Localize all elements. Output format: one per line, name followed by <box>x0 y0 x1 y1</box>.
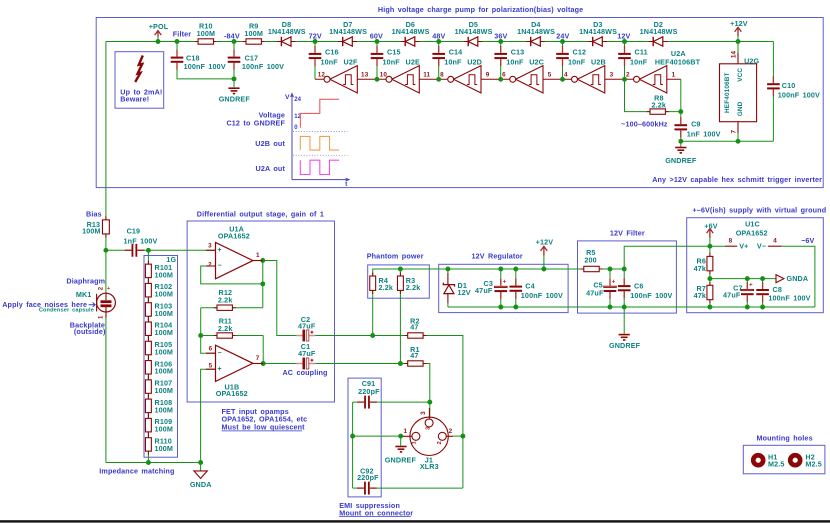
svg-text:14: 14 <box>731 51 738 59</box>
svg-text:100M: 100M <box>155 347 174 356</box>
svg-text:Mounting holes: Mounting holes <box>756 433 812 442</box>
capacitor C5 <box>586 279 616 299</box>
svg-text:V+: V+ <box>739 242 748 251</box>
junction <box>350 434 355 439</box>
junction <box>608 305 613 310</box>
op-amp U1B <box>206 345 263 398</box>
junction <box>622 39 627 44</box>
junction <box>760 276 765 281</box>
junction <box>398 267 403 272</box>
svg-text:V: V <box>285 94 290 101</box>
svg-text:2.2k: 2.2k <box>218 296 233 305</box>
svg-text:10nF: 10nF <box>321 58 339 67</box>
wire: gnd bottom rail <box>448 306 815 308</box>
junction <box>622 305 627 310</box>
wire: left drop from rail to bias node <box>105 42 107 251</box>
lightning bolt icon <box>135 56 143 83</box>
wire: pump cap to inverter row <box>500 59 502 79</box>
svg-text:2.2k: 2.2k <box>406 283 421 292</box>
wire: D1 drop <box>447 269 449 274</box>
svg-text:C11: C11 <box>635 48 648 57</box>
wire: C4 drop <box>515 269 517 284</box>
wire: pump cap drop <box>314 42 316 52</box>
svg-text:−: − <box>217 263 221 270</box>
svg-text:220pF: 220pF <box>357 473 379 482</box>
svg-text:47k: 47k <box>694 264 706 273</box>
wire: pump cap drop <box>500 42 502 52</box>
diode D2 <box>640 20 678 46</box>
junction <box>541 267 546 272</box>
resistor R107 <box>145 376 173 397</box>
wire: C92 row right <box>371 487 463 489</box>
svg-text:~100–600kHz: ~100–600kHz <box>621 119 668 128</box>
note: Backplate (outside) <box>70 320 106 336</box>
svg-text:100nF 100V: 100nF 100V <box>184 62 226 71</box>
svg-text:48V: 48V <box>432 31 445 40</box>
svg-text:U2B: U2B <box>591 58 606 67</box>
svg-text:0: 0 <box>294 125 298 131</box>
wire: pump cap drop <box>376 42 378 52</box>
svg-text:C8: C8 <box>773 285 782 294</box>
svg-text:U2A out: U2A out <box>256 164 286 173</box>
wire: MK1 bottom to impedance row <box>105 317 107 463</box>
svg-text:3: 3 <box>610 72 614 79</box>
junction <box>707 276 712 281</box>
svg-text:−: − <box>217 350 221 357</box>
junction <box>146 248 151 253</box>
svg-text:OPA1652: OPA1652 <box>216 389 248 398</box>
label U2A HEF40106BT <box>655 49 701 66</box>
svg-text:+POL: +POL <box>149 22 169 31</box>
svg-text:6: 6 <box>209 346 213 353</box>
note: EMI suppression <box>339 501 413 517</box>
resistor R105 <box>145 338 173 359</box>
ground GNDA arrow <box>776 274 808 283</box>
wire: C19 row left <box>106 249 131 251</box>
svg-text:100M: 100M <box>155 386 174 395</box>
plot trace U2B out <box>300 136 339 150</box>
svg-text:10nF: 10nF <box>568 58 586 67</box>
inverter U2D <box>448 66 481 93</box>
junction <box>736 39 741 44</box>
wire: U1B pin5 to gnda <box>201 369 216 462</box>
svg-text:GNDREF: GNDREF <box>665 156 697 165</box>
wire: U1B out to C1 <box>253 363 297 365</box>
junction <box>445 267 450 272</box>
wire: C3 drop <box>500 269 502 284</box>
wire: R7 bottom <box>709 300 711 307</box>
power +6V <box>704 222 717 238</box>
section box: resistor ladder 1G <box>144 256 178 458</box>
wire: V- to -6V rail <box>782 246 815 307</box>
ground GNDREF at XLR <box>385 447 417 465</box>
wire: R4 bottom <box>372 290 374 335</box>
resistor R106 <box>145 357 173 378</box>
svg-text:GNDA: GNDA <box>787 274 809 283</box>
svg-text:1N4148WS: 1N4148WS <box>392 27 430 36</box>
resistor R11 <box>214 316 236 338</box>
svg-text:100M: 100M <box>155 367 174 376</box>
power +12V regulator <box>536 238 554 256</box>
wire: C5 drop <box>609 269 611 285</box>
svg-text:U2B out: U2B out <box>255 139 285 148</box>
wire: pump cap to inverter row <box>438 59 440 79</box>
resistor R102 <box>145 280 173 301</box>
junction <box>460 434 465 439</box>
wire: V+ row <box>624 246 725 269</box>
resistor R5 <box>581 248 603 272</box>
wire: XLR pin2 row <box>452 435 463 437</box>
svg-text:C13: C13 <box>511 48 525 57</box>
resistor R9 <box>243 22 265 45</box>
diode D7 <box>329 20 367 46</box>
inverter U2F <box>324 66 357 93</box>
wire: R6 bottom <box>709 271 711 279</box>
wire: C3 bottom <box>500 292 502 307</box>
wire: filter GNDREF drop <box>623 307 625 334</box>
wire: rail down to C10 top <box>772 42 774 84</box>
junction <box>678 109 683 114</box>
svg-text:1: 1 <box>412 441 418 444</box>
plot dotted zero lines <box>293 132 348 156</box>
junction <box>370 333 375 338</box>
junction <box>436 39 441 44</box>
svg-text:12V Regulator: 12V Regulator <box>472 252 523 261</box>
capacitor C11 <box>618 46 648 67</box>
svg-text:24: 24 <box>294 97 301 103</box>
junction <box>622 267 627 272</box>
wire: pump cap to inverter row <box>376 59 378 79</box>
svg-text:C16: C16 <box>325 48 339 57</box>
resistor R103 <box>145 299 173 320</box>
svg-text:MK1: MK1 <box>76 290 92 299</box>
svg-text:3: 3 <box>420 411 427 415</box>
op-amp U1A <box>206 225 263 279</box>
wire: C19 row to U1A pin3 <box>137 249 215 251</box>
svg-text:Any >12V capable hex schmitt t: Any >12V capable hex schmitt trigger inv… <box>652 175 822 184</box>
svg-text:M2.5: M2.5 <box>805 459 822 468</box>
svg-text:100M: 100M <box>155 328 174 337</box>
resistor R3 <box>397 272 420 294</box>
resistor R8 <box>647 93 669 114</box>
resistor R101 <box>145 261 173 282</box>
resistor R2 <box>405 316 427 338</box>
junction <box>313 39 318 44</box>
svg-text:C9: C9 <box>691 120 700 129</box>
microphone capsule MK1 <box>97 286 116 318</box>
pin 8 V+ <box>725 238 749 251</box>
svg-text:GNDREF: GNDREF <box>609 341 641 350</box>
ground GNDREF under C17 <box>219 88 251 103</box>
svg-text:8: 8 <box>440 72 444 79</box>
junction <box>436 77 441 82</box>
wire: pump cap to inverter row <box>624 59 626 79</box>
wire: pump cap drop <box>562 42 564 52</box>
section box: 12V filter <box>578 241 677 313</box>
svg-text:GNDA: GNDA <box>190 480 212 489</box>
wire: C91 to XLR3 net <box>371 401 430 403</box>
svg-text:220pF: 220pF <box>358 387 380 396</box>
resistor R110 <box>145 434 173 455</box>
junction <box>745 305 750 310</box>
mounting hole H1 <box>751 452 785 468</box>
svg-text:100M: 100M <box>155 444 174 453</box>
svg-text:U2C: U2C <box>529 58 544 67</box>
svg-text:VCC: VCC <box>737 68 744 82</box>
wire: C8 bottom <box>762 296 764 307</box>
wire: C8 drop <box>762 279 764 289</box>
wire: inverter chain row <box>315 78 681 80</box>
ground GNDA <box>190 463 212 489</box>
svg-text:100nF 100V: 100nF 100V <box>630 291 672 300</box>
label U1C OPA1652 <box>736 219 768 237</box>
inverter U2C <box>510 66 543 93</box>
wire: C18 bottom <box>177 64 234 79</box>
junction <box>198 460 203 465</box>
svg-text:+: + <box>749 283 753 289</box>
svg-text:GND: GND <box>737 101 744 116</box>
svg-text:36V: 36V <box>494 31 507 40</box>
diode D4 <box>517 20 555 46</box>
section box: +-6V supply <box>687 218 824 313</box>
svg-text:+–6V(ish) supply with virtual: +–6V(ish) supply with virtual ground <box>692 205 826 214</box>
svg-text:1: 1 <box>403 428 407 435</box>
note: FET input opamps <box>222 407 308 431</box>
junction <box>560 77 565 82</box>
wire: +12V stub <box>543 254 545 269</box>
wire: C17 drop <box>233 42 235 56</box>
junction <box>560 39 565 44</box>
svg-text:+: + <box>503 280 507 286</box>
wire: C6 bottom <box>623 292 625 307</box>
junction <box>427 400 432 405</box>
wire: U2A input to C9 <box>680 79 682 122</box>
svg-text:1nF 100V: 1nF 100V <box>124 236 158 245</box>
wire: U1B pin6 <box>201 336 216 354</box>
svg-text:1N4148WS: 1N4148WS <box>268 27 306 36</box>
svg-text:3: 3 <box>426 427 432 430</box>
svg-text:U2E: U2E <box>406 58 420 67</box>
capacitor C1 <box>296 342 316 369</box>
junction <box>608 267 613 272</box>
resistor R6 <box>694 253 713 275</box>
svg-text:47uF: 47uF <box>586 288 604 297</box>
svg-text:100M: 100M <box>155 270 174 279</box>
junction <box>232 39 237 44</box>
svg-text:C12 to GNDREF: C12 to GNDREF <box>226 118 285 127</box>
svg-text:High voltage charge pump for p: High voltage charge pump for polarizatio… <box>378 5 583 14</box>
resistor R10 <box>195 22 217 45</box>
svg-text:U2G: U2G <box>744 57 759 66</box>
svg-text:10nF: 10nF <box>506 58 524 67</box>
wire: feedback to R12 <box>262 284 264 308</box>
junction <box>707 305 712 310</box>
junction <box>261 361 266 366</box>
svg-text:2: 2 <box>449 428 453 435</box>
svg-text:V−: V− <box>757 242 766 251</box>
zener diode D1 <box>443 281 470 297</box>
svg-text:+: + <box>107 286 110 292</box>
wire: phantom rail <box>373 269 584 276</box>
svg-text:1nF 100V: 1nF 100V <box>687 129 721 138</box>
capacitor C13 <box>494 46 524 67</box>
wire: bias node to MK1 top <box>105 250 107 293</box>
svg-text:1N4148WS: 1N4148WS <box>517 27 555 36</box>
svg-text:Impedance matching: Impedance matching <box>99 466 174 475</box>
connector J1 XLR3 <box>403 408 453 471</box>
junction <box>622 77 627 82</box>
svg-text:100nF 100V: 100nF 100V <box>778 90 820 99</box>
wire: R11 row <box>201 335 264 337</box>
svg-text:8: 8 <box>729 238 733 245</box>
resistor R108 <box>145 396 173 417</box>
svg-text:2.2k: 2.2k <box>218 324 233 333</box>
wire: U1A pin2 loop <box>201 266 263 284</box>
wire: R8 feedback <box>625 79 681 111</box>
resistor R7 <box>694 282 713 304</box>
wire: R3 bottom <box>399 290 401 363</box>
junction <box>398 434 403 439</box>
wire: pump cap drop <box>624 42 626 52</box>
svg-text:47: 47 <box>410 323 418 332</box>
svg-text:4: 4 <box>773 238 777 245</box>
svg-text:100M: 100M <box>155 405 174 414</box>
resistor R4 <box>370 272 393 294</box>
svg-text:1: 1 <box>672 72 676 79</box>
wire: R1 to XLR pin3 net <box>423 364 430 403</box>
svg-text:24V: 24V <box>556 31 569 40</box>
wire: U1A out junction to feedback <box>262 261 264 284</box>
svg-text:U2F: U2F <box>344 58 358 67</box>
svg-text:t: t <box>345 181 348 188</box>
wire: C10 bottom to GNDREF rail <box>772 89 774 141</box>
wire: C2 to R2 <box>315 335 408 337</box>
junction <box>745 276 750 281</box>
wire: R6 top <box>709 246 711 256</box>
junction <box>375 77 380 82</box>
junction <box>513 267 518 272</box>
svg-text:Phantom power: Phantom power <box>367 251 424 260</box>
svg-text:Bias: Bias <box>86 209 102 218</box>
capacitor C92 <box>357 467 379 495</box>
svg-text:2.2k: 2.2k <box>652 101 667 110</box>
plot label Voltage C12 to GNDREF <box>226 111 285 128</box>
wire: C4 bottom <box>515 292 517 307</box>
capacitor C16 <box>309 46 339 67</box>
junction <box>175 39 180 44</box>
svg-text:M2.5: M2.5 <box>768 459 785 468</box>
svg-text:2: 2 <box>208 262 212 269</box>
svg-text:100M: 100M <box>155 290 174 299</box>
wire: R11 right to U1B out <box>262 336 264 364</box>
warning box <box>115 52 164 108</box>
svg-text:6: 6 <box>502 72 506 79</box>
svg-text:47uF: 47uF <box>475 286 493 295</box>
resistor R12 <box>214 288 236 310</box>
wire: rail R5 to C6 <box>600 268 625 270</box>
svg-text:12: 12 <box>318 72 326 79</box>
capacitor C12 <box>556 46 586 67</box>
junction <box>375 39 380 44</box>
svg-text:47uF: 47uF <box>298 349 316 358</box>
svg-text:Beware!: Beware! <box>120 95 149 104</box>
capacitor C15 <box>371 46 401 67</box>
svg-text:+12V: +12V <box>536 238 554 247</box>
capacitor C14 <box>432 46 462 67</box>
wire: U2G pin7 <box>737 122 739 134</box>
diode D5 <box>455 20 493 46</box>
ground GNDREF filter <box>609 335 641 350</box>
wire: R7 top <box>709 279 711 286</box>
wire: C91 row left <box>353 401 364 403</box>
capacitor C8 <box>756 282 810 303</box>
svg-text:1N4148WS: 1N4148WS <box>455 27 493 36</box>
svg-text:Differential output stage, gai: Differential output stage, gain of 1 <box>197 210 324 219</box>
diode D3 <box>579 20 617 46</box>
wire: R12 row <box>201 307 263 309</box>
power +12V top <box>730 19 748 42</box>
capacitor C4 <box>510 279 564 300</box>
plot axis labels <box>285 94 348 188</box>
wire: C18 drop <box>176 42 178 56</box>
svg-text:+6V: +6V <box>704 222 717 231</box>
svg-text:7: 7 <box>731 129 738 133</box>
svg-text:C10: C10 <box>782 81 796 90</box>
wire: C92 row left <box>353 487 364 489</box>
ground GNDREF under C9 <box>665 141 697 165</box>
svg-text:1: 1 <box>256 252 260 259</box>
svg-text:Diaphragm: Diaphragm <box>66 277 105 286</box>
wire: U2G pin14 <box>737 42 739 54</box>
svg-text:C12: C12 <box>573 48 587 57</box>
wire: +6V stub <box>709 238 711 247</box>
wire: D1 to gnd rail <box>447 294 449 304</box>
wire: pump cap drop <box>438 42 440 52</box>
junction <box>156 39 161 44</box>
junction <box>498 267 503 272</box>
wire: C1 to R1 <box>315 363 408 365</box>
svg-text:U2D: U2D <box>467 58 482 67</box>
section box: differential output stage <box>187 221 334 402</box>
svg-text:1N4148WS: 1N4148WS <box>579 27 617 36</box>
svg-text:47k: 47k <box>694 291 706 300</box>
svg-text:9: 9 <box>486 72 490 79</box>
svg-text:5: 5 <box>548 72 552 79</box>
capacitor C91 <box>357 379 380 409</box>
junction <box>103 248 108 253</box>
capacitor C7 <box>723 282 754 302</box>
svg-text:72V: 72V <box>309 31 322 40</box>
wire: C7 bottom <box>746 296 748 307</box>
junction <box>736 139 741 144</box>
junction <box>498 39 503 44</box>
svg-text:+12V: +12V <box>730 19 748 28</box>
svg-text:Apply face noises here: Apply face noises here <box>2 300 87 309</box>
junction <box>678 139 683 144</box>
svg-text:Must be low quiescent: Must be low quiescent <box>222 422 306 431</box>
svg-text:AC coupling: AC coupling <box>282 368 327 377</box>
svg-text:12V: 12V <box>617 31 630 40</box>
capacitor C2 <box>296 315 316 342</box>
svg-text:10: 10 <box>380 72 388 79</box>
svg-text:13: 13 <box>361 72 369 79</box>
junction <box>760 305 765 310</box>
junction <box>498 305 503 310</box>
svg-text:U1C: U1C <box>745 219 760 228</box>
svg-text:11: 11 <box>423 72 430 79</box>
svg-text:100M: 100M <box>155 309 174 318</box>
junction <box>260 258 265 263</box>
